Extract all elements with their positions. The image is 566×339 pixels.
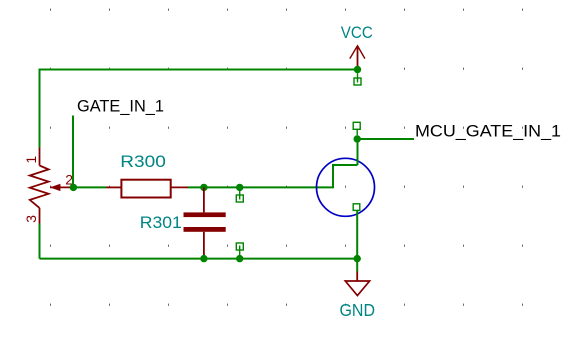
wire GND stem: [356, 259, 358, 272]
resistor R300: [106, 180, 188, 198]
svg-text:GATE_IN_1: GATE_IN_1: [77, 96, 164, 115]
pin 3: [23, 215, 39, 223]
transistor body: [317, 158, 375, 216]
pin 2: [65, 171, 73, 187]
label VCC: [341, 23, 373, 42]
wire left vertical lower: [39, 224, 41, 259]
label GATE_IN_1: [77, 96, 164, 115]
svg-text:R300: R300: [120, 152, 166, 171]
pin marker source: [353, 204, 360, 211]
svg-text:3: 3: [23, 215, 39, 223]
junction node cap top: [200, 184, 207, 191]
label R300: [120, 152, 166, 171]
label GND: [340, 300, 376, 320]
junction wiper node: [70, 184, 77, 191]
junction drain node: [354, 135, 361, 142]
wire drain vertical: [357, 139, 359, 165]
potentiometer wiper arrow: [50, 184, 73, 191]
power VCC symbol: [350, 46, 365, 70]
wire GATE_IN_1 vertical: [72, 116, 74, 188]
wire source vertical: [356, 210, 358, 258]
svg-text:GND: GND: [340, 300, 376, 320]
svg-text:R301: R301: [140, 213, 182, 232]
wire gate step: [333, 165, 358, 188]
capacitor R301: [184, 187, 226, 258]
potentiometer body: [30, 148, 49, 224]
junction node cap bottom: [200, 255, 207, 262]
pin marker drain: [353, 122, 360, 135]
wire bottom horizontal: [40, 258, 358, 260]
svg-text:MCU_GATE_IN_1: MCU_GATE_IN_1: [415, 121, 561, 140]
pin marker stub upper: [236, 187, 243, 202]
junction VCC node: [354, 66, 361, 73]
ground GND symbol: [345, 272, 369, 296]
junction ground node: [354, 255, 361, 262]
wire left vertical upper: [39, 69, 41, 148]
svg-text:VCC: VCC: [341, 23, 373, 42]
wire top horizontal: [40, 69, 358, 71]
junction node right bottom: [236, 255, 243, 262]
wire R300 to transistor: [188, 186, 333, 188]
pin marker VCC: [354, 73, 361, 85]
pin marker stub lower: [236, 243, 243, 259]
wire wiper to R300: [73, 186, 106, 188]
label R301: [140, 213, 182, 232]
junction node right top: [236, 184, 243, 191]
wire to MCU label: [357, 138, 414, 140]
pin 1: [23, 156, 39, 164]
svg-text:1: 1: [23, 156, 39, 164]
label MCU_GATE_IN_1: [415, 121, 561, 140]
